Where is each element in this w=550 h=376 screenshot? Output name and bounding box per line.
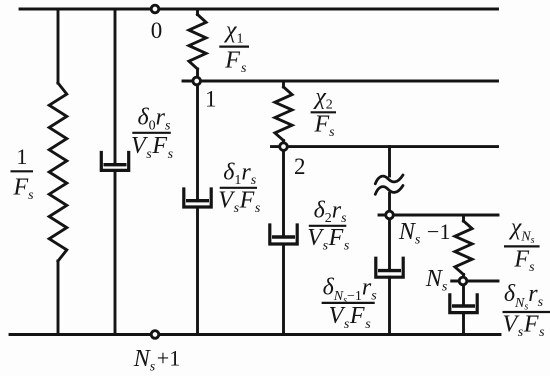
node Ns+1 <box>151 331 159 339</box>
wire bottom bus <box>10 333 500 336</box>
wire bus node 1 <box>183 80 498 83</box>
damper delta0 <box>101 9 128 335</box>
label node Ns-1 <box>398 219 451 248</box>
svg-text:1: 1 <box>440 219 451 244</box>
svg-text:0: 0 <box>151 18 163 43</box>
node 1 <box>193 77 201 85</box>
wire top bus <box>20 8 498 11</box>
svg-text:Fs: Fs <box>13 174 35 203</box>
svg-text:Fs: Fs <box>224 47 247 76</box>
svg-text:δ0rs: δ0rs <box>138 105 172 134</box>
label node Ns+1 <box>133 346 181 375</box>
label delta Ns rs / VsFs <box>503 281 550 340</box>
svg-text:δNs−1rs: δNs−1rs <box>323 275 378 306</box>
damper delta Ns <box>450 295 477 335</box>
label delta2 rs / VsFs <box>307 197 350 253</box>
svg-text:δ2rs: δ2rs <box>314 197 348 226</box>
wire node2 branch <box>282 151 285 237</box>
svg-text:1: 1 <box>16 144 27 169</box>
svg-text:1: 1 <box>205 87 217 112</box>
node Ns <box>459 277 467 285</box>
label chi1/Fs <box>219 18 249 76</box>
svg-text:VsFs: VsFs <box>503 311 546 340</box>
label delta1 rs / VsFs <box>218 159 261 216</box>
svg-text:VsFs: VsFs <box>329 303 372 332</box>
damper delta2 <box>270 225 297 335</box>
wire Ns-1 branch lower <box>388 194 391 211</box>
node 0 <box>151 5 159 13</box>
svg-text:Fs: Fs <box>314 111 336 140</box>
label delta Ns-1 rs / VsFs <box>322 275 378 332</box>
damper delta Ns-1 <box>376 258 403 334</box>
wire node1 branch <box>196 86 199 201</box>
damper delta1 <box>184 189 211 335</box>
svg-text:VsFs: VsFs <box>218 187 261 216</box>
svg-text:VsFs: VsFs <box>307 225 350 254</box>
label 1/Fs <box>11 144 35 203</box>
svg-text:VsFs: VsFs <box>131 133 174 162</box>
resistor R 1/Fs <box>49 9 67 335</box>
svg-text:χ1: χ1 <box>224 18 244 47</box>
svg-text:Ns: Ns <box>425 266 448 295</box>
label chi2/Fs <box>311 84 336 140</box>
svg-text:2: 2 <box>294 154 306 179</box>
resistor chi Ns <box>455 215 472 277</box>
label delta0 rs / VsFs <box>131 105 174 162</box>
label chi Ns / Fs <box>504 215 540 276</box>
svg-text:χ2: χ2 <box>313 84 333 113</box>
node Ns-1 <box>386 211 394 219</box>
svg-text:χNs: χNs <box>509 215 535 247</box>
wire Ns-1 branch upper <box>388 147 391 176</box>
wire bus node Ns-1 <box>379 214 498 217</box>
resistor chi1 <box>189 9 206 77</box>
resistor chi2 <box>275 81 292 143</box>
wire bus node 2 <box>272 145 498 148</box>
wire below node Ns-1 <box>388 220 391 271</box>
break squiggle <box>375 175 403 194</box>
svg-text:δ1rs: δ1rs <box>223 159 257 188</box>
svg-text:Fs: Fs <box>513 247 535 276</box>
svg-text:Ns: Ns <box>398 219 421 248</box>
wire bus node Ns <box>452 280 498 283</box>
svg-text:+1: +1 <box>157 346 180 371</box>
svg-text:δNsrs: δNsrs <box>504 281 544 313</box>
wire below node Ns <box>462 286 465 307</box>
node 2 <box>280 143 288 151</box>
svg-text:Ns: Ns <box>133 346 156 375</box>
svg-text:−: − <box>427 219 439 244</box>
